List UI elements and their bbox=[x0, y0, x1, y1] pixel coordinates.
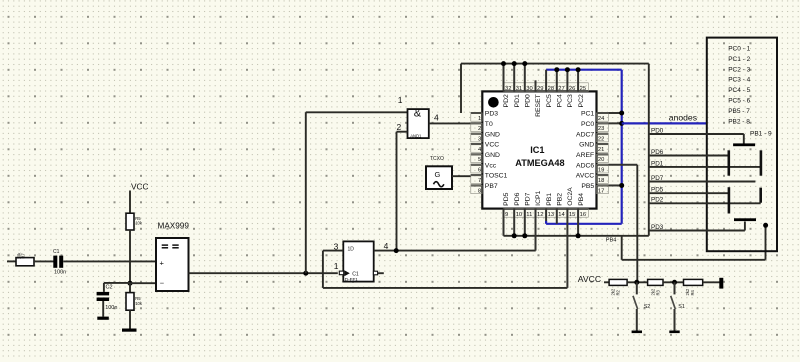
svg-text:PB7: PB7 bbox=[485, 183, 498, 190]
svg-text:100n: 100n bbox=[105, 305, 117, 311]
svg-text:PB1 - 9: PB1 - 9 bbox=[750, 130, 772, 137]
svg-text:T0: T0 bbox=[485, 121, 493, 128]
svg-text:PC0 - 1: PC0 - 1 bbox=[728, 46, 750, 53]
svg-text:PB1: PB1 bbox=[546, 193, 553, 206]
svg-text:PC2: PC2 bbox=[578, 94, 585, 107]
svg-text:PC2 - 3: PC2 - 3 bbox=[728, 66, 750, 73]
svg-text:2: 2 bbox=[396, 122, 401, 132]
svg-text:AREF: AREF bbox=[576, 152, 594, 159]
svg-text:PB5: PB5 bbox=[581, 183, 594, 190]
svg-text:PD7: PD7 bbox=[651, 175, 664, 182]
svg-text:30: 30 bbox=[526, 86, 532, 92]
svg-text:TCXO: TCXO bbox=[430, 156, 444, 162]
svg-text:PD7: PD7 bbox=[525, 192, 532, 205]
svg-text:23: 23 bbox=[598, 126, 604, 132]
svg-text:ATMEGA48: ATMEGA48 bbox=[515, 158, 564, 168]
svg-text:PC3: PC3 bbox=[567, 94, 574, 107]
svg-text:PD0: PD0 bbox=[525, 94, 532, 107]
svg-text:TOSC1: TOSC1 bbox=[485, 173, 508, 180]
svg-text:MAX999: MAX999 bbox=[158, 222, 190, 231]
svg-text:1: 1 bbox=[478, 116, 481, 122]
svg-text:17: 17 bbox=[598, 188, 604, 194]
svg-text:12: 12 bbox=[537, 212, 543, 218]
svg-text:PD1: PD1 bbox=[651, 160, 664, 167]
svg-text:27: 27 bbox=[558, 86, 564, 92]
svg-text:GND: GND bbox=[485, 152, 500, 159]
svg-text:PC1 - 2: PC1 - 2 bbox=[728, 56, 750, 63]
svg-text:&: & bbox=[414, 108, 422, 120]
svg-text:ADC7: ADC7 bbox=[576, 131, 594, 138]
svg-text:PC5: PC5 bbox=[546, 94, 553, 107]
svg-text:AVCC: AVCC bbox=[576, 173, 594, 180]
svg-text:13: 13 bbox=[548, 212, 554, 218]
svg-text:4: 4 bbox=[434, 112, 439, 122]
svg-text:PD1: PD1 bbox=[514, 94, 521, 107]
svg-text:VCC: VCC bbox=[485, 142, 499, 149]
svg-text:32: 32 bbox=[505, 86, 511, 92]
svg-text:28: 28 bbox=[548, 86, 554, 92]
svg-text:PB2 - 8: PB2 - 8 bbox=[728, 118, 750, 125]
svg-text:VCC: VCC bbox=[131, 182, 149, 192]
svg-text:9: 9 bbox=[505, 212, 508, 218]
svg-text:ADC6: ADC6 bbox=[576, 162, 594, 169]
svg-text:PD3: PD3 bbox=[485, 111, 498, 118]
svg-text:PB4: PB4 bbox=[606, 238, 617, 244]
svg-text:R2: R2 bbox=[615, 289, 620, 295]
svg-text:AND1: AND1 bbox=[410, 133, 422, 138]
svg-text:PD6: PD6 bbox=[514, 192, 521, 205]
svg-text:1: 1 bbox=[398, 95, 403, 105]
svg-text:R4: R4 bbox=[690, 289, 695, 295]
svg-text:29: 29 bbox=[537, 86, 543, 92]
svg-text:7: 7 bbox=[478, 178, 481, 184]
svg-text:+: + bbox=[160, 258, 165, 267]
svg-text:2: 2 bbox=[478, 126, 481, 132]
svg-text:4: 4 bbox=[384, 241, 389, 251]
svg-text:PD3: PD3 bbox=[651, 224, 664, 231]
svg-text:18: 18 bbox=[598, 178, 604, 184]
svg-text:1: 1 bbox=[334, 261, 339, 271]
svg-text:anodes: anodes bbox=[669, 112, 697, 122]
svg-text:31: 31 bbox=[516, 86, 522, 92]
svg-text:22: 22 bbox=[598, 137, 604, 143]
svg-text:S2: S2 bbox=[644, 304, 651, 310]
svg-text:3: 3 bbox=[478, 137, 481, 143]
svg-text:G: G bbox=[435, 170, 441, 179]
svg-text:11: 11 bbox=[526, 212, 532, 218]
svg-text:16: 16 bbox=[580, 212, 586, 218]
svg-text:PD5: PD5 bbox=[503, 192, 510, 205]
svg-text:100n: 100n bbox=[54, 270, 66, 276]
svg-text:24: 24 bbox=[598, 116, 605, 122]
svg-text:Vcc: Vcc bbox=[485, 162, 497, 169]
svg-text:PD2: PD2 bbox=[651, 197, 664, 204]
svg-text:15: 15 bbox=[569, 212, 575, 218]
svg-text:20: 20 bbox=[598, 157, 604, 163]
svg-text:PC5 - 6: PC5 - 6 bbox=[728, 98, 750, 105]
svg-text:21: 21 bbox=[598, 147, 604, 153]
svg-text:AVCC: AVCC bbox=[578, 274, 601, 284]
svg-text:19: 19 bbox=[598, 168, 604, 174]
svg-text:PC4 - 5: PC4 - 5 bbox=[728, 87, 750, 94]
svg-text:PD0: PD0 bbox=[651, 127, 664, 134]
svg-text:PB2: PB2 bbox=[557, 193, 564, 206]
svg-text:10k: 10k bbox=[17, 252, 22, 260]
svg-text:3: 3 bbox=[334, 242, 339, 252]
svg-text:25: 25 bbox=[580, 86, 586, 92]
svg-text:PC4: PC4 bbox=[557, 94, 564, 107]
svg-text:PD6: PD6 bbox=[651, 149, 664, 156]
svg-text:1D: 1D bbox=[348, 246, 355, 252]
svg-text:PB5 - 7: PB5 - 7 bbox=[728, 108, 750, 115]
svg-text:6: 6 bbox=[478, 168, 481, 174]
svg-text:PC0: PC0 bbox=[581, 121, 594, 128]
svg-text:D-FF1: D-FF1 bbox=[345, 277, 358, 282]
svg-text:PC1: PC1 bbox=[581, 111, 594, 118]
svg-text:R3: R3 bbox=[655, 289, 660, 295]
svg-text:C2: C2 bbox=[106, 285, 113, 291]
svg-text:RESET: RESET bbox=[535, 94, 542, 117]
svg-text:PD2: PD2 bbox=[503, 94, 510, 107]
svg-text:10k: 10k bbox=[135, 221, 143, 226]
svg-text:PC3 - 4: PC3 - 4 bbox=[728, 77, 750, 84]
svg-text:S1: S1 bbox=[678, 304, 685, 310]
svg-text:−: − bbox=[160, 279, 165, 288]
svg-text:8: 8 bbox=[478, 188, 481, 194]
svg-text:PB4: PB4 bbox=[578, 193, 585, 206]
svg-text:26: 26 bbox=[569, 86, 575, 92]
svg-text:10: 10 bbox=[516, 212, 522, 218]
svg-text:5: 5 bbox=[478, 157, 481, 163]
svg-text:10k: 10k bbox=[135, 301, 143, 306]
svg-text:GND: GND bbox=[485, 131, 500, 138]
svg-text:OC2A: OC2A bbox=[567, 187, 574, 206]
svg-text:IC1: IC1 bbox=[530, 145, 544, 155]
svg-text:C1: C1 bbox=[53, 249, 60, 255]
svg-text:14: 14 bbox=[558, 212, 565, 218]
svg-text:PD5: PD5 bbox=[651, 187, 664, 194]
svg-text:GND: GND bbox=[579, 142, 594, 149]
svg-text:ICP1: ICP1 bbox=[535, 190, 542, 205]
